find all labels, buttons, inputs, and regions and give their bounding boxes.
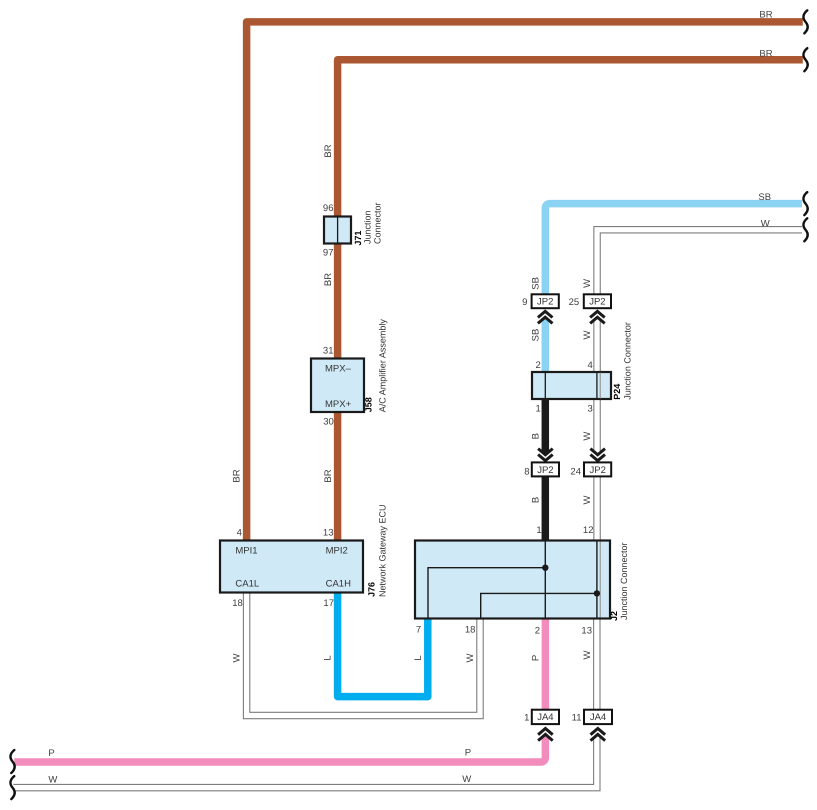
svg-text:JP2: JP2 xyxy=(537,465,553,476)
svg-text:17: 17 xyxy=(323,598,334,609)
svg-text:BR: BR xyxy=(323,469,334,482)
svg-text:BR: BR xyxy=(232,469,243,482)
svg-text:B: B xyxy=(530,433,541,439)
connector chevrons below JP2 9 (up) xyxy=(537,308,554,323)
svg-text:7: 7 xyxy=(416,624,421,635)
svg-text:12: 12 xyxy=(583,525,594,536)
svg-text:BR: BR xyxy=(759,49,772,60)
connector box 11 JA4 xyxy=(584,710,612,724)
svg-text:Network Gateway ECU: Network Gateway ECU xyxy=(378,504,388,597)
wire P from J2 pin 2 through JA4 to bottom-left edge xyxy=(14,619,545,763)
svg-text:J58: J58 xyxy=(364,397,374,412)
svg-text:JA4: JA4 xyxy=(590,712,606,723)
connector box 9 JP2 xyxy=(532,294,559,308)
svg-text:CA1H: CA1H xyxy=(326,579,351,590)
svg-text:13: 13 xyxy=(581,626,592,637)
connector box 1 JA4 xyxy=(532,710,559,724)
wire L from J76 pin 17 to J2 pin 7 xyxy=(338,593,428,697)
svg-text:Junction: Junction xyxy=(363,210,373,244)
svg-text:W: W xyxy=(48,774,57,785)
svg-text:A/C Amplifier Assembly: A/C Amplifier Assembly xyxy=(378,319,388,413)
connector chevrons below JP2 25 (up) xyxy=(589,308,606,323)
svg-text:1: 1 xyxy=(536,525,541,536)
svg-text:W: W xyxy=(582,279,593,288)
break symbol P wire left xyxy=(10,750,14,773)
svg-text:W: W xyxy=(582,330,593,339)
wire SB from right edge to P24 pin 2 xyxy=(545,204,802,372)
junction connector J2 xyxy=(415,541,610,619)
network gateway ECU J76 xyxy=(220,541,363,593)
svg-text:MPI2: MPI2 xyxy=(326,545,348,556)
svg-text:JP2: JP2 xyxy=(537,297,553,308)
svg-text:BR: BR xyxy=(323,273,334,286)
svg-text:B: B xyxy=(530,497,541,503)
wire W U-shape: J76 pin 18 to J2 pin 18 xyxy=(247,593,480,716)
junction dot node (J2 pins 1-2-7) xyxy=(542,565,548,571)
svg-text:Connector: Connector xyxy=(373,202,383,244)
break symbol BR wire 1 right xyxy=(803,10,807,33)
svg-text:W: W xyxy=(582,650,593,659)
junction dot node (J2 pins 12-13-18) xyxy=(594,590,600,596)
svg-text:18: 18 xyxy=(465,624,476,635)
svg-text:W: W xyxy=(465,653,476,662)
A/C amplifier assembly J58 xyxy=(311,359,364,413)
svg-text:1: 1 xyxy=(536,404,541,415)
svg-text:J76: J76 xyxy=(367,582,377,597)
svg-text:P: P xyxy=(48,748,54,759)
svg-text:96: 96 xyxy=(323,203,334,214)
junction connector J71 xyxy=(324,217,351,244)
connector box 25 JP2 xyxy=(584,294,611,308)
svg-text:BR: BR xyxy=(323,144,334,157)
svg-text:MPX+: MPX+ xyxy=(325,399,352,410)
svg-text:MPX–: MPX– xyxy=(325,363,352,374)
COMPONENT INNER LABELS xyxy=(235,363,351,589)
wire BR #2 horizontal+vertical through J71, J58 to J76 pin 13 xyxy=(338,60,803,541)
svg-text:30: 30 xyxy=(323,417,334,428)
svg-text:W: W xyxy=(462,774,471,785)
svg-text:P24: P24 xyxy=(612,384,622,400)
svg-text:8: 8 xyxy=(524,466,529,477)
svg-text:MPI1: MPI1 xyxy=(235,545,257,556)
break symbol SB wire right xyxy=(803,192,807,215)
connector chevrons below JA4 11 (up) xyxy=(590,726,607,741)
connector chevrons above JP2 24 (down) xyxy=(589,449,606,464)
svg-text:P: P xyxy=(530,655,541,661)
connector chevrons below JA4 1 (up) xyxy=(537,726,554,741)
svg-text:13: 13 xyxy=(323,528,334,539)
svg-text:25: 25 xyxy=(569,297,580,308)
svg-text:11: 11 xyxy=(572,713,582,724)
svg-text:9: 9 xyxy=(522,297,527,308)
svg-text:Junction Connector: Junction Connector xyxy=(623,322,633,400)
connector chevrons above JP2 8 (down) xyxy=(537,449,554,464)
svg-text:CA1L: CA1L xyxy=(235,579,259,590)
svg-text:J2: J2 xyxy=(609,611,619,621)
svg-text:J71: J71 xyxy=(353,231,363,246)
svg-text:W: W xyxy=(232,653,243,662)
wire B from P24 pin 1 to J2 pin 1 xyxy=(542,399,550,541)
wire W from J2 pin 13 through JA4 to bottom-left edge xyxy=(13,619,596,788)
wire W right: from right edge to J2 pin 12 xyxy=(597,230,802,541)
svg-text:1: 1 xyxy=(524,713,529,724)
svg-text:SB: SB xyxy=(530,329,541,342)
svg-text:W: W xyxy=(761,218,770,229)
svg-text:JP2: JP2 xyxy=(590,465,606,476)
svg-text:L: L xyxy=(413,655,424,660)
svg-text:W: W xyxy=(582,432,593,441)
svg-text:JP2: JP2 xyxy=(589,297,605,308)
wire BR #1 horizontal+vertical to J76 pin 4 xyxy=(247,22,803,541)
svg-text:2: 2 xyxy=(536,360,541,371)
svg-text:BR: BR xyxy=(759,9,772,20)
svg-text:SB: SB xyxy=(530,277,541,290)
svg-text:4: 4 xyxy=(237,528,242,539)
connector box 24 JP2 xyxy=(584,462,611,476)
svg-text:18: 18 xyxy=(232,598,243,609)
svg-text:JA4: JA4 xyxy=(537,712,553,723)
break symbol W wire right xyxy=(803,218,807,241)
svg-text:31: 31 xyxy=(323,346,334,357)
break symbol W wire left xyxy=(10,776,14,799)
PIN NUMBER LABELS xyxy=(232,203,593,724)
svg-text:4: 4 xyxy=(588,360,593,371)
WIRE COLOR LABELS rotated xyxy=(232,144,594,662)
connector box 8 JP2 xyxy=(532,462,559,476)
svg-text:Junction Connector: Junction Connector xyxy=(619,542,629,620)
svg-text:97: 97 xyxy=(323,247,334,258)
break symbol BR wire 2 right xyxy=(803,48,807,71)
svg-text:24: 24 xyxy=(570,466,581,477)
svg-text:W: W xyxy=(582,495,593,504)
svg-text:SB: SB xyxy=(758,192,771,203)
junction connector P24 xyxy=(532,372,611,399)
svg-text:2: 2 xyxy=(535,626,540,637)
svg-text:L: L xyxy=(323,655,334,660)
svg-text:P: P xyxy=(465,747,471,758)
svg-text:3: 3 xyxy=(588,404,593,415)
